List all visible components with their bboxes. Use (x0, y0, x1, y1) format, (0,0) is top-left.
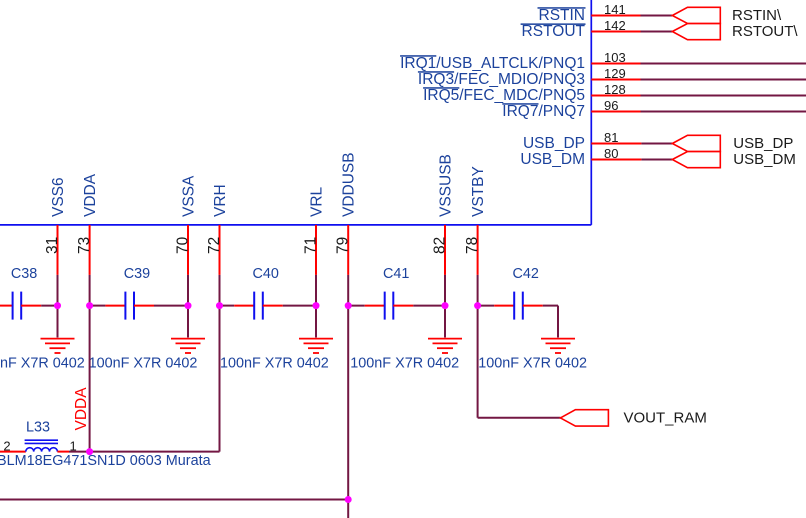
off-page connector VOUT_RAM (560, 410, 706, 427)
off-page connector RSTIN\ (672, 7, 782, 24)
pin 129 IRQ3 stub (591, 66, 640, 81)
off-page connector USB_DM (672, 151, 796, 168)
junction node VRH (216, 302, 223, 309)
pin name IRQ5/FEC_MDC/PNQ5 (423, 87, 585, 104)
junction node VSTBY (474, 302, 481, 309)
svg-text:78: 78 (464, 237, 481, 254)
svg-text:79: 79 (335, 237, 352, 254)
IC U? body bottom edge (0, 224, 591, 226)
wire bottom rail (0, 499, 348, 501)
capacitor C40 (220, 266, 329, 372)
junction node VSSUSB (442, 302, 449, 309)
wire pin71 to rail (315, 275, 317, 306)
svg-text:RSTIN: RSTIN (539, 7, 586, 24)
wire pin78 to rail (477, 275, 479, 306)
svg-text:USB_DM: USB_DM (733, 151, 796, 168)
pin name IRQ3/FEC_MDIO/PNQ3 (418, 71, 585, 88)
svg-text:70: 70 (174, 236, 191, 254)
wire VDDUSB net vertical drop (347, 306, 349, 518)
svg-text:80: 80 (604, 146, 618, 161)
wire IRQ1 net to sheet edge (641, 63, 806, 65)
pin 142 RSTOUT stub (591, 18, 640, 33)
svg-text:100nF X7R 0402: 100nF X7R 0402 (478, 356, 587, 372)
pin 103 IRQ1 stub (591, 50, 640, 65)
svg-text:C38: C38 (11, 266, 37, 282)
wire VDDA net vertical drop (89, 306, 91, 452)
svg-text:73: 73 (76, 237, 93, 254)
svg-text:VSTBY: VSTBY (470, 166, 487, 217)
wire USB_DP to connector (641, 143, 672, 145)
inductor L33 (0, 420, 211, 469)
wire RSTOUT to connector (641, 31, 673, 33)
svg-text:VSSUSB: VSSUSB (437, 154, 454, 217)
pin 78 VSTBY stub (464, 225, 481, 275)
svg-text:141: 141 (604, 2, 626, 17)
svg-text:142: 142 (604, 18, 626, 33)
wire C38 to node VSS6 (41, 305, 57, 307)
pin 82 VSSUSB stub (431, 225, 448, 275)
wire node VRL to ground (315, 306, 317, 338)
svg-text:IRQ1/USB_ALTCLK/PNQ1: IRQ1/USB_ALTCLK/PNQ1 (400, 55, 585, 72)
pin 81 USB_DP stub (591, 130, 641, 145)
wire IRQ3 net to sheet edge (641, 79, 806, 81)
svg-text:82: 82 (431, 237, 448, 254)
junction node VSS6 (54, 302, 61, 309)
wire C39 to node VSSA (154, 305, 188, 307)
junction node VDDA-L33 (86, 448, 93, 455)
svg-text:100nF X7R 0402: 100nF X7R 0402 (350, 356, 459, 372)
svg-text:100nF X7R 0402: 100nF X7R 0402 (0, 356, 85, 372)
svg-text:VDDA: VDDA (82, 173, 99, 217)
capacitor C39 (89, 266, 198, 372)
svg-text:2: 2 (3, 439, 10, 454)
wire VSTBY to VOUT_RAM (478, 306, 561, 418)
wire USB_DM to connector (641, 159, 672, 161)
pin 73 VDDA stub (76, 225, 93, 275)
wire IRQ7 net to sheet edge (641, 111, 806, 113)
svg-text:VDDA: VDDA (73, 387, 90, 431)
wire node VSTBY to C42 (478, 305, 495, 307)
svg-text:100nF X7R 0402: 100nF X7R 0402 (89, 356, 198, 372)
svg-text:72: 72 (206, 237, 223, 254)
wire RSTIN to connector (641, 15, 673, 17)
svg-text:USB_DP: USB_DP (733, 135, 793, 152)
wire node VDDUSB to C41 (348, 305, 365, 307)
junction node VDDUSB (345, 302, 352, 309)
ground symbol at VSS6 (41, 339, 75, 353)
svg-text:VRL: VRL (308, 186, 325, 217)
svg-text:128: 128 (604, 82, 626, 97)
pin name RSTOUT (521, 23, 586, 40)
off-page connector RSTOUT\ (672, 23, 798, 40)
svg-text:C41: C41 (383, 266, 409, 282)
wire C41 to node VSSUSB (413, 305, 445, 307)
pin 31 VSS6 stub (44, 225, 61, 275)
wire node VRH to C40 (220, 305, 235, 307)
off-page connector USB_DP (672, 135, 793, 152)
junction node VSSA (185, 302, 192, 309)
pin 72 VRH stub (206, 225, 223, 275)
svg-text:100nF X7R 0402: 100nF X7R 0402 (220, 356, 329, 372)
svg-text:81: 81 (604, 130, 618, 145)
pin 96 IRQ7 stub (591, 98, 640, 113)
pin 80 USB_DM stub (591, 146, 641, 161)
svg-text:RSTOUT\: RSTOUT\ (732, 23, 798, 40)
pin 79 VDDUSB stub (335, 225, 352, 275)
svg-text:VSSA: VSSA (180, 175, 197, 217)
wire node VSSA to ground (187, 306, 189, 338)
svg-text:31: 31 (44, 237, 61, 254)
svg-text:C42: C42 (513, 266, 539, 282)
IC U? body right edge (590, 0, 592, 225)
junction node VDDA (86, 302, 93, 309)
wire node VSS6 to ground (57, 306, 59, 338)
ground symbol at VSSUSB (428, 339, 462, 353)
svg-text:IRQ5/FEC_MDC/PNQ5: IRQ5/FEC_MDC/PNQ5 (423, 87, 585, 104)
svg-text:C39: C39 (124, 266, 150, 282)
pin name IRQ7/PNQ7 (502, 103, 585, 120)
wire IRQ5 net to sheet edge (641, 95, 806, 97)
svg-text:71: 71 (302, 237, 319, 254)
pin name IRQ1/USB_ALTCLK/PNQ1 (400, 55, 585, 72)
svg-text:VDDUSB: VDDUSB (341, 152, 358, 217)
wire pin82 to rail (444, 275, 446, 306)
svg-text:103: 103 (604, 50, 626, 65)
capacitor C38 (0, 266, 85, 372)
ground symbol at C42 (541, 339, 575, 353)
pin 70 VSSA stub (174, 225, 191, 275)
svg-text:VSS6: VSS6 (50, 177, 67, 217)
svg-text:VOUT_RAM: VOUT_RAM (624, 410, 707, 427)
svg-text:C40: C40 (253, 266, 279, 282)
svg-text:RSTIN\: RSTIN\ (732, 7, 782, 24)
wire node VDDA to VRH riser (90, 306, 220, 452)
svg-text:BLM18EG471SN1D 0603 Murata: BLM18EG471SN1D 0603 Murata (0, 453, 211, 469)
wire pin79 to rail (347, 275, 349, 306)
ground symbol at VSSA (171, 339, 205, 353)
wire node VDDA to C39 (90, 305, 106, 307)
capacitor C41 (350, 266, 459, 372)
wire L33 pin1 to node VDDA (69, 451, 90, 453)
pin name RSTIN (538, 7, 586, 24)
junction node VRL (313, 302, 320, 309)
wire pin31 to rail (57, 275, 59, 306)
wire pin70 to rail (187, 275, 189, 306)
ground symbol at VRL (299, 339, 333, 353)
pin 71 VRL stub (302, 225, 319, 275)
svg-text:USB_DM: USB_DM (520, 151, 585, 168)
pin 141 RSTIN stub (591, 2, 640, 17)
wire C42 to ground drop (543, 306, 558, 338)
svg-text:129: 129 (604, 66, 626, 81)
wire C40 to node VRL (283, 305, 316, 307)
junction node bottom rail (345, 496, 352, 503)
svg-text:96: 96 (604, 98, 618, 113)
wire node VSSUSB to ground (444, 306, 446, 338)
svg-text:RSTOUT: RSTOUT (522, 23, 586, 40)
svg-text:VRH: VRH (212, 184, 229, 217)
pin 128 IRQ5 stub (591, 82, 640, 97)
svg-text:IRQ7/PNQ7: IRQ7/PNQ7 (502, 103, 585, 120)
wire pin73 to rail (89, 275, 91, 306)
svg-text:IRQ3/FEC_MDIO/PNQ3: IRQ3/FEC_MDIO/PNQ3 (418, 71, 585, 88)
capacitor C42 (478, 266, 587, 372)
wire pin72 to rail (219, 275, 221, 306)
svg-text:USB_DP: USB_DP (523, 135, 585, 152)
svg-text:L33: L33 (26, 420, 50, 436)
